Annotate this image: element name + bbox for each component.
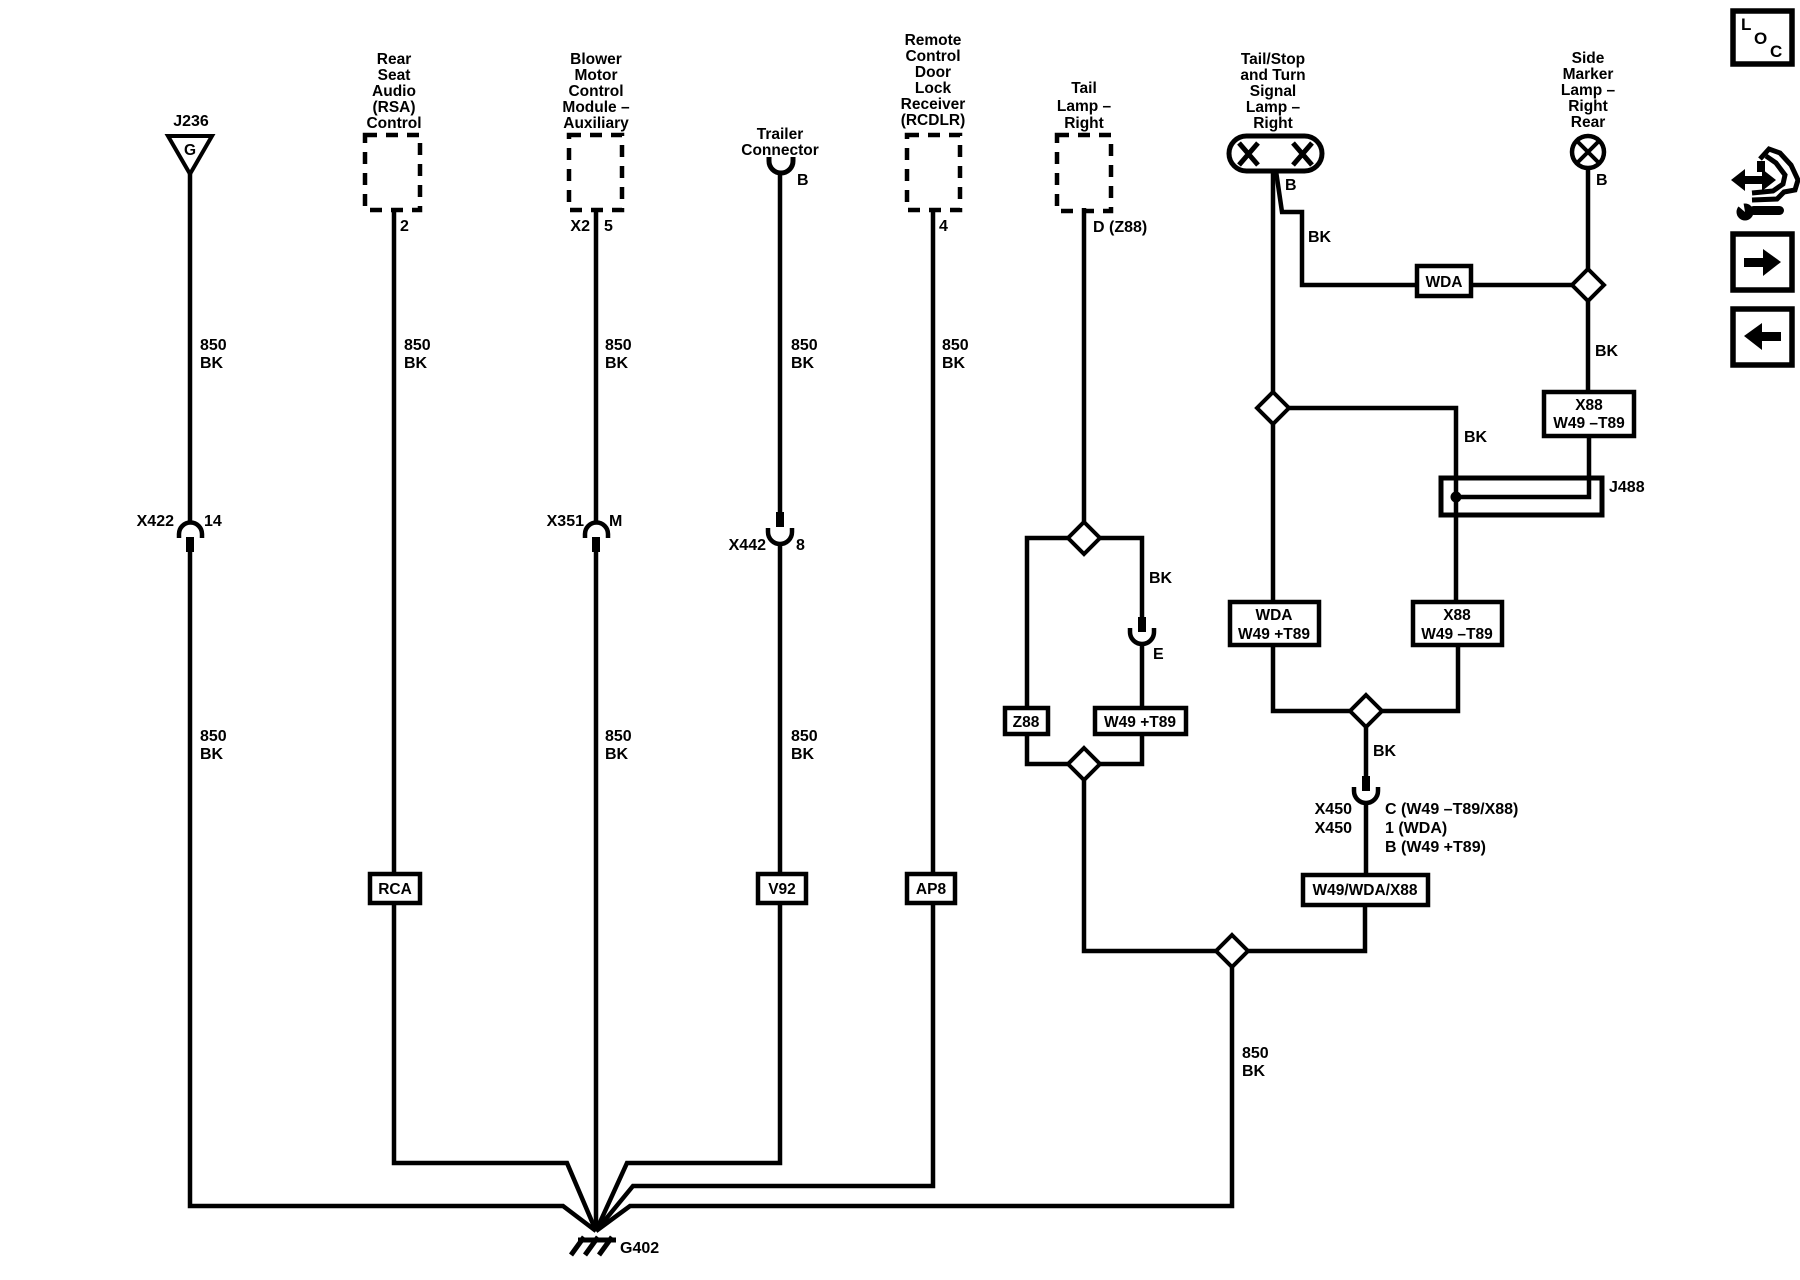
wire WDA W49 +T89 box to middle diamond — [1273, 645, 1366, 711]
wire J236 ground lead 850 BK (lower) — [190, 551, 596, 1231]
splice diamond on tail/stop wire — [1257, 392, 1289, 424]
svg-text:M: M — [609, 513, 622, 530]
svg-text:Lamp –: Lamp – — [1246, 99, 1301, 116]
svg-text:8: 8 — [796, 537, 805, 554]
svg-text:Right: Right — [1568, 98, 1608, 115]
wire Tail/Stop lamp pin B down to diamond — [1271, 170, 1276, 408]
connector X442 (pin + socket arc) on trailer wire — [776, 512, 784, 527]
box AP8 — [907, 874, 955, 903]
svg-text:2: 2 — [400, 218, 409, 235]
box W49/WDA/X88 — [1303, 875, 1428, 905]
splice diamond tail lamp lower — [1068, 748, 1100, 780]
box X88 W49 -T89 (upper) — [1544, 392, 1634, 436]
svg-text:(RSA): (RSA) — [372, 99, 415, 116]
svg-text:J236: J236 — [173, 113, 209, 130]
svg-text:X422: X422 — [137, 513, 174, 530]
wire tail lamp left branch to Z88 — [1027, 538, 1068, 708]
box WDA W49 +T89 — [1230, 602, 1319, 645]
svg-text:Z88: Z88 — [1013, 714, 1040, 731]
svg-text:Marker: Marker — [1563, 66, 1614, 83]
svg-text:W49 +T89: W49 +T89 — [1238, 626, 1310, 643]
svg-text:V92: V92 — [768, 881, 796, 898]
svg-text:Door: Door — [915, 64, 951, 81]
wire Trailer Connector pin B 850 BK (lower) — [596, 544, 780, 1231]
svg-text:B (W49 +T89): B (W49 +T89) — [1385, 839, 1486, 856]
svg-text:Tail/Stop: Tail/Stop — [1241, 51, 1305, 68]
wire lower X88 box to middle diamond — [1366, 645, 1458, 711]
svg-text:B: B — [797, 172, 809, 189]
svg-text:850: 850 — [404, 337, 431, 354]
wire RSA pin 2 850 BK — [394, 208, 596, 1231]
wire Blower X2 pin 5 850 BK (upper) — [594, 208, 599, 523]
splice diamond tail lamp upper — [1068, 522, 1100, 554]
svg-text:BK: BK — [1464, 429, 1488, 446]
connector symbol Trailer Connector (cup) — [769, 157, 793, 173]
svg-text:W49 –T89: W49 –T89 — [1553, 415, 1625, 432]
ground symbol J236 (triangle G) — [168, 136, 212, 174]
box WDA (top right) — [1417, 266, 1471, 296]
svg-text:14: 14 — [204, 513, 222, 530]
svg-text:Lamp –: Lamp – — [1057, 98, 1112, 115]
connector X351 (socket arc + pin) on blower wire — [585, 523, 608, 539]
wire lower diamond down to junction with W49/WDA/X88 run — [1084, 764, 1232, 951]
wire junction diamond to W49/WDA/X88 box bottom — [1232, 905, 1365, 951]
svg-text:Auxiliary: Auxiliary — [563, 115, 629, 132]
svg-text:and Turn: and Turn — [1240, 67, 1305, 84]
svg-text:850: 850 — [605, 337, 632, 354]
connector X450 (pin + socket arc) — [1362, 776, 1370, 791]
svg-text:BK: BK — [605, 746, 629, 763]
svg-text:J488: J488 — [1609, 479, 1645, 496]
svg-text:Signal: Signal — [1250, 83, 1297, 100]
component Remote Control Door Lock Receiver (RCDLR) dashed box — [907, 135, 960, 210]
svg-text:5: 5 — [604, 218, 613, 235]
legend box back arrow — [1733, 309, 1792, 365]
svg-text:G402: G402 — [620, 1240, 659, 1257]
svg-text:850: 850 — [605, 728, 632, 745]
svg-text:B: B — [1285, 177, 1297, 194]
legend box forward arrow — [1733, 234, 1792, 290]
svg-text:L: L — [1741, 15, 1751, 34]
svg-text:Right: Right — [1064, 115, 1104, 132]
svg-text:E: E — [1153, 646, 1164, 663]
wire BK side marker diamond to upper X88 box — [1586, 285, 1591, 392]
splice dot in J488 — [1451, 492, 1462, 503]
box RCA — [370, 874, 420, 903]
svg-text:Control: Control — [905, 48, 960, 65]
svg-text:Trailer: Trailer — [757, 126, 804, 143]
LOC legend box — [1733, 11, 1792, 64]
lamp Side Marker Lamp - Right Rear (circle with X) — [1572, 136, 1604, 168]
svg-text:X88: X88 — [1575, 397, 1603, 414]
wire 850 BK from junction diamond down to ground run — [596, 951, 1232, 1231]
svg-text:X450: X450 — [1315, 801, 1352, 818]
svg-text:Module –: Module – — [562, 99, 630, 116]
wire W49 +T89 box to lower diamond — [1084, 734, 1142, 764]
component Rear Seat Audio (RSA) Control dashed box — [365, 135, 420, 210]
svg-text:WDA: WDA — [1425, 274, 1462, 291]
wire diamond to WDA W49 +T89 box — [1271, 408, 1276, 602]
svg-text:Control: Control — [366, 115, 421, 132]
lamp Tail/Stop and Turn Signal Lamp - Right (stadium with two X) — [1229, 136, 1322, 171]
svg-text:850: 850 — [791, 337, 818, 354]
svg-text:BK: BK — [791, 355, 815, 372]
svg-text:1 (WDA): 1 (WDA) — [1385, 820, 1447, 837]
svg-text:BK: BK — [1308, 229, 1332, 246]
svg-text:BK: BK — [200, 746, 224, 763]
svg-text:BK: BK — [605, 355, 629, 372]
svg-text:BK: BK — [1373, 743, 1397, 760]
svg-text:X2: X2 — [570, 218, 590, 235]
svg-text:BK: BK — [200, 355, 224, 372]
svg-text:X88: X88 — [1443, 607, 1471, 624]
svg-text:C: C — [1770, 42, 1782, 61]
svg-text:850: 850 — [200, 337, 227, 354]
splice pack J488 rectangle — [1441, 478, 1602, 515]
component Blower Motor Control Module - Auxiliary dashed box — [569, 135, 622, 210]
svg-text:Tail: Tail — [1071, 80, 1097, 97]
box W49 +T89 — [1095, 708, 1186, 734]
svg-text:850: 850 — [791, 728, 818, 745]
wire RCDLR pin 4 850 BK — [596, 208, 933, 1231]
svg-text:RCA: RCA — [378, 881, 412, 898]
wire connector E to W49 +T89 box — [1140, 645, 1145, 708]
splice diamond on side marker wire — [1572, 269, 1604, 301]
svg-text:Connector: Connector — [741, 142, 819, 159]
svg-text:W49/WDA/X88: W49/WDA/X88 — [1312, 882, 1417, 899]
wire connector X450 to W49/WDA/X88 box — [1364, 803, 1369, 875]
svg-text:850: 850 — [200, 728, 227, 745]
svg-text:Motor: Motor — [574, 67, 617, 84]
svg-text:(RCDLR): (RCDLR) — [901, 112, 966, 129]
svg-text:X442: X442 — [729, 537, 766, 554]
svg-text:BK: BK — [1595, 343, 1619, 360]
svg-text:Receiver: Receiver — [901, 96, 966, 113]
wire J236 ground lead 850 BK (upper) — [188, 174, 193, 523]
svg-text:Side: Side — [1572, 50, 1605, 67]
svg-text:WDA: WDA — [1255, 607, 1292, 624]
svg-text:BK: BK — [942, 355, 966, 372]
connector E (pin + socket arc) on tail lamp right branch — [1138, 617, 1146, 632]
wire Trailer Connector pin B 850 BK (upper) — [778, 172, 783, 512]
svg-text:Lamp –: Lamp – — [1561, 82, 1616, 99]
svg-text:BK: BK — [791, 746, 815, 763]
splice diamond bottom junction — [1216, 935, 1248, 967]
svg-text:BK: BK — [1149, 570, 1173, 587]
connector X422 (socket arc + pin) on J236 wire — [179, 523, 202, 539]
svg-text:B: B — [1596, 172, 1608, 189]
svg-text:Remote: Remote — [905, 32, 962, 49]
box X88 W49 -T89 (lower) — [1413, 602, 1502, 645]
svg-text:X351: X351 — [547, 513, 584, 530]
svg-text:D (Z88): D (Z88) — [1093, 219, 1147, 236]
svg-text:Control: Control — [568, 83, 623, 100]
svg-text:G: G — [184, 142, 196, 159]
icon wiring navigation (double arrow, hook outline, wrench) — [1731, 149, 1798, 221]
wire Blower X2 pin 5 850 BK (lower) — [594, 551, 599, 1231]
svg-text:Right: Right — [1253, 115, 1293, 132]
svg-text:850: 850 — [942, 337, 969, 354]
svg-text:BK: BK — [404, 355, 428, 372]
wire BK from diamond right through J488 to lower X88 box — [1273, 408, 1456, 602]
svg-text:W49 +T89: W49 +T89 — [1104, 714, 1176, 731]
svg-text:4: 4 — [939, 218, 948, 235]
wire Z88 to lower diamond — [1027, 734, 1084, 764]
wire WDA box to side marker diamond — [1471, 283, 1588, 288]
svg-text:BK: BK — [1242, 1063, 1266, 1080]
wire tail lamp right branch BK to connector E — [1100, 538, 1142, 618]
svg-text:Lock: Lock — [915, 80, 952, 97]
svg-text:X450: X450 — [1315, 820, 1352, 837]
svg-text:850: 850 — [1242, 1045, 1269, 1062]
svg-text:AP8: AP8 — [916, 881, 947, 898]
svg-text:Audio: Audio — [372, 83, 416, 100]
svg-text:O: O — [1754, 29, 1767, 48]
svg-text:Rear: Rear — [377, 51, 411, 68]
svg-text:Rear: Rear — [1571, 114, 1605, 131]
wire Side Marker lamp pin B to diamond — [1586, 168, 1591, 285]
wire Tail Lamp pin D to splice diamond — [1082, 208, 1087, 538]
svg-text:C (W49 –T89/X88): C (W49 –T89/X88) — [1385, 801, 1518, 818]
svg-text:W49 –T89: W49 –T89 — [1421, 626, 1493, 643]
ground symbol G402 — [571, 1237, 616, 1255]
wire BK diagonal branch from lamp to WDA box — [1276, 171, 1417, 285]
wire upper X88 box into J488 splice — [1456, 436, 1589, 497]
wire BK middle diamond to connector X450 — [1364, 711, 1369, 777]
svg-text:Seat: Seat — [378, 67, 411, 84]
splice diamond middle (WDA/X88 join) — [1350, 695, 1382, 727]
box Z88 — [1005, 708, 1048, 734]
component Tail Lamp - Right dashed box — [1057, 135, 1111, 211]
svg-text:Blower: Blower — [570, 51, 622, 68]
box V92 — [758, 874, 806, 903]
